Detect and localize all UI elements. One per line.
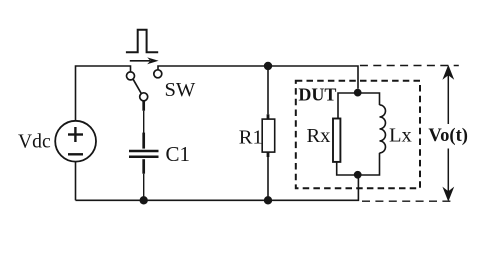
wire: Vdc bottom to rail — [75, 162, 77, 201]
svg-text:R1: R1 — [239, 126, 263, 148]
junction node DUT top — [354, 89, 362, 97]
wire: switch throw 2 to top rail and down into DUT — [158, 66, 358, 89]
wire: DUT top node to Rx and Lx — [338, 93, 380, 119]
wire: switch pole lead (thick stub) — [142, 101, 145, 111]
svg-text:Vo(t): Vo(t) — [428, 125, 468, 146]
capacitor C1 — [129, 133, 159, 174]
dashed leader top — [360, 65, 459, 67]
switch SW throw contact 1 — [127, 72, 135, 80]
resistor Rx — [333, 119, 340, 162]
wire: Vdc top to switch throw 1 — [76, 66, 131, 121]
wire: bottom rail — [76, 175, 359, 201]
svg-text:Rx: Rx — [307, 125, 331, 147]
actuation arrow — [130, 57, 159, 64]
voltage source Vdc — [55, 121, 96, 162]
Vo(t) measurement arrow line — [442, 65, 454, 202]
switch SW blade — [133, 79, 141, 93]
svg-text:SW: SW — [165, 79, 196, 101]
inductor Lx — [380, 105, 386, 153]
wire: switch pole to capacitor C1 — [143, 111, 145, 133]
label Vo(t) — [428, 125, 470, 148]
wire: Rx bottom to node to Lx bottom — [337, 153, 380, 175]
DUT dashed enclosure — [296, 81, 420, 188]
junction node at R1 top — [264, 62, 272, 70]
svg-text:C1: C1 — [166, 142, 191, 166]
dashed leader bottom — [362, 200, 455, 202]
pulse trigger symbol — [126, 30, 158, 53]
junction node at R1 bottom — [264, 196, 272, 204]
svg-text:Lx: Lx — [389, 125, 412, 147]
wire: R1 bottom lead — [267, 157, 269, 200]
wire: R1 top lead — [267, 66, 269, 114]
svg-text:Vdc: Vdc — [18, 132, 51, 153]
resistor R1 — [262, 114, 275, 157]
switch SW throw contact 2 — [154, 70, 162, 78]
svg-text:DUT: DUT — [298, 84, 336, 104]
switch SW pole contact — [140, 93, 148, 101]
junction node DUT bottom — [354, 171, 362, 179]
junction node at C1 bottom — [140, 196, 148, 204]
wire: C1 to bottom rail — [143, 174, 145, 201]
